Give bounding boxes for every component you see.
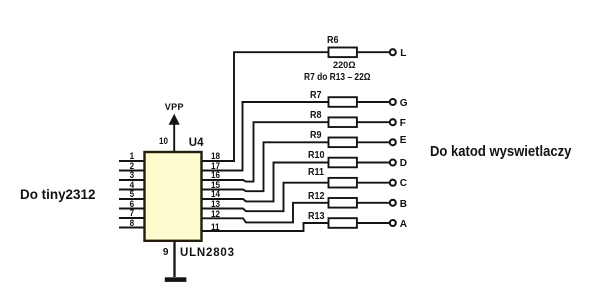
node D label xyxy=(400,159,407,169)
node terminal D circle xyxy=(390,160,396,166)
wire pin17 to R7 xyxy=(202,102,329,171)
pin 8 label xyxy=(130,219,135,228)
wire pin18 to R6 xyxy=(202,52,329,161)
resistor R9 box xyxy=(329,138,357,148)
R12 label xyxy=(308,192,325,202)
op-amp U4 IC body ULN2803 xyxy=(145,152,202,241)
pin 14 label xyxy=(211,190,220,199)
wire pin2 stub xyxy=(119,170,145,172)
wire R8 to terminal F xyxy=(357,121,390,123)
resistor R12 box xyxy=(329,198,357,208)
wire R10 to terminal D xyxy=(357,162,390,164)
pin 13 label xyxy=(211,200,220,209)
node terminal A circle xyxy=(390,220,396,226)
wire pin1 stub xyxy=(119,160,145,162)
pin 3 label xyxy=(130,171,135,180)
wire R11 to terminal C xyxy=(357,182,390,184)
wire pin15 to R9 xyxy=(202,142,329,191)
U4 reference label xyxy=(189,138,204,150)
pin 4 label xyxy=(130,181,135,190)
resistor R7 box xyxy=(329,97,357,107)
resistor R11 box xyxy=(329,178,357,188)
node F label xyxy=(400,119,406,129)
R6 value 220 ohm xyxy=(333,61,356,71)
wire pin5 stub xyxy=(119,198,145,200)
Do tiny2312 caption xyxy=(20,187,95,201)
note R7 do R13 22 ohm xyxy=(304,73,371,83)
R7 label xyxy=(310,91,322,101)
node E label xyxy=(400,136,407,146)
R11 label xyxy=(308,168,324,178)
R10 label xyxy=(308,151,325,161)
node terminal C circle xyxy=(390,180,396,186)
node terminal B circle xyxy=(390,200,396,206)
pin 16 label xyxy=(211,171,220,180)
R8 label xyxy=(310,111,322,121)
pin 11 label xyxy=(211,223,220,232)
pin 5 label xyxy=(130,190,135,199)
resistor R10 box xyxy=(329,158,357,168)
wire pin4 stub xyxy=(119,189,145,191)
pin 12 label xyxy=(211,210,220,219)
wire R9 to terminal E xyxy=(357,141,390,143)
ground xyxy=(165,277,187,282)
pin 18 label xyxy=(211,152,220,161)
pin 7 label xyxy=(130,209,135,218)
wire R12 to terminal B xyxy=(357,202,390,204)
wire pin14 to R10 xyxy=(202,163,329,202)
node terminal F circle xyxy=(390,119,396,125)
wire pin11 to R13 xyxy=(202,223,329,231)
wire pin3 stub xyxy=(119,179,145,181)
node L label xyxy=(400,49,406,59)
wire pin12 to R12 xyxy=(202,203,329,223)
wire R6 to terminal L xyxy=(357,51,390,53)
node terminal L circle xyxy=(390,49,396,55)
node B label xyxy=(400,200,407,210)
Do katod wyswietlaczy caption xyxy=(430,144,571,159)
ULN2803 value label xyxy=(180,248,235,260)
wire R7 to terminal G xyxy=(357,101,390,103)
pin 2 label xyxy=(130,162,135,171)
pin 15 label xyxy=(211,181,220,190)
wire R13 to terminal A xyxy=(357,222,390,224)
node A label xyxy=(400,220,407,230)
wire pin16 to R8 xyxy=(202,122,329,181)
pin 9 label xyxy=(163,248,169,258)
node terminal E circle xyxy=(390,139,396,145)
pin 1 label xyxy=(130,152,135,161)
pin 10 label xyxy=(159,137,168,146)
wire pin9 ground xyxy=(173,241,175,277)
pin 6 label xyxy=(130,200,135,209)
pin 17 label xyxy=(211,162,220,171)
wire pin13 to R11 xyxy=(202,183,329,212)
R13 label xyxy=(308,212,325,222)
node C label xyxy=(400,179,407,189)
VPP net label xyxy=(165,103,184,112)
resistor R13 box xyxy=(329,218,357,228)
resistor R8 box xyxy=(329,117,357,127)
R9 label xyxy=(310,131,322,141)
wire pin10 VPP xyxy=(173,123,175,152)
wire pin8 stub xyxy=(119,227,145,229)
wire pin6 stub xyxy=(119,208,145,210)
node terminal G circle xyxy=(390,99,396,105)
resistor R6 box xyxy=(329,48,357,58)
R6 label xyxy=(327,36,339,46)
node G label xyxy=(400,99,408,109)
wire pin7 stub xyxy=(119,217,145,219)
VPP arrow xyxy=(169,114,180,125)
